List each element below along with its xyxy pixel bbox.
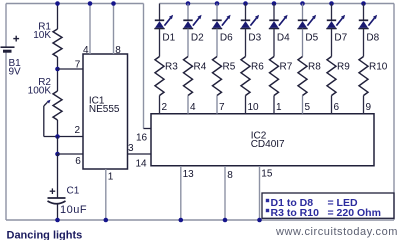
title Dancing lights	[7, 230, 83, 240]
pin number 13	[183, 169, 195, 180]
label R2	[38, 77, 51, 88]
node pin2 junction	[55, 134, 60, 139]
node pin8 ground junction	[223, 218, 228, 223]
pin number 4 (IC2 top)	[190, 102, 196, 113]
IC U2 CD4017 box	[151, 114, 374, 166]
label D3	[248, 33, 261, 44]
svg-text:8: 8	[115, 45, 121, 56]
svg-text:R7: R7	[280, 62, 293, 73]
pin number 6 (IC2 top)	[334, 102, 340, 113]
LED D4	[269, 15, 288, 29]
wire R4 to IC2 pin 4	[187, 96, 189, 114]
resistor R3	[155, 57, 164, 96]
capacitor C1	[48, 188, 66, 203]
node D3 rail junction	[243, 1, 248, 6]
legend text D1 to D8	[271, 197, 314, 209]
node C1 ground junction	[55, 218, 60, 223]
wire D6 to R5	[216, 29, 218, 57]
wire C1 top lead	[57, 154, 59, 198]
node pin1 ground junction	[104, 218, 109, 223]
node R1 rail junction	[55, 1, 60, 6]
svg-text:10K: 10K	[33, 30, 51, 41]
wire D3 to R6	[245, 29, 247, 57]
pin number 16	[136, 133, 148, 144]
wire R1 top lead	[57, 4, 59, 30]
wire top rail left segment (+9V)	[6, 3, 144, 5]
node D2 rail junction	[186, 1, 191, 6]
svg-text:R5: R5	[223, 62, 236, 73]
wire R5 to IC2 pin 7	[216, 96, 218, 114]
label B1	[9, 58, 22, 69]
svg-text:9V: 9V	[9, 67, 22, 78]
pin number 7 (IC2 top)	[219, 102, 225, 113]
label IC1	[89, 96, 105, 107]
svg-text:R10: R10	[369, 62, 388, 73]
svg-text:6: 6	[75, 156, 81, 167]
svg-text:NE555: NE555	[89, 104, 120, 115]
wire pin 6	[58, 153, 84, 155]
wire pin 16 from +9V rail	[144, 4, 152, 129]
LED D3	[240, 15, 259, 29]
svg-text:7: 7	[75, 60, 81, 71]
label R4	[194, 62, 207, 73]
resistor R10	[359, 57, 368, 96]
wire R2 bottom lead	[57, 120, 59, 137]
label CD4017	[251, 139, 285, 150]
svg-text:3: 3	[128, 143, 134, 154]
legend bullet 2	[266, 209, 269, 212]
legend box	[262, 193, 394, 218]
pin number 1	[108, 172, 114, 183]
wire R6 to IC2 pin 10	[245, 96, 247, 114]
wire pin 8	[113, 4, 115, 55]
wire D2 anode lead	[187, 4, 189, 21]
wire bottom rail (0V)	[6, 219, 394, 221]
svg-text:D5: D5	[305, 33, 318, 44]
svg-text:100K: 100K	[28, 86, 52, 97]
wire pin 8 ground	[224, 166, 226, 220]
svg-text:R3 to R10: R3 to R10	[271, 207, 320, 219]
label R5	[223, 62, 236, 73]
svg-text:D2: D2	[191, 33, 204, 44]
label R3	[165, 62, 178, 73]
label C1	[67, 186, 80, 197]
svg-text:1: 1	[108, 172, 114, 183]
wire D1 anode lead	[159, 4, 161, 21]
legend text R3 to R10	[271, 207, 320, 219]
label R10	[369, 62, 388, 73]
svg-text:CD40I7: CD40I7	[251, 139, 285, 150]
wire R7 to IC2 pin 1	[273, 96, 275, 114]
label D5	[305, 33, 318, 44]
op-amp IC1 NE555 box	[83, 54, 128, 169]
LED D2	[183, 15, 202, 29]
wire D1 to R3	[159, 29, 161, 57]
LED D5	[297, 15, 316, 29]
svg-text:R9: R9	[337, 62, 350, 73]
pin number 8	[115, 45, 121, 56]
svg-text:7: 7	[219, 102, 225, 113]
wire D6 anode lead	[216, 4, 218, 21]
legend text = 220 Ohm	[328, 207, 381, 219]
node D6 rail junction	[215, 1, 220, 6]
LED D8	[358, 15, 377, 29]
wire pin 3 to pin 14	[128, 153, 152, 155]
node R1/R2 junction	[55, 67, 60, 72]
svg-text:C1: C1	[67, 186, 80, 197]
legend text = LED	[328, 197, 358, 209]
wire R3 to IC2 pin 2	[159, 96, 161, 114]
pin number 2 (IC2 top)	[162, 102, 168, 113]
svg-text:9: 9	[366, 102, 372, 113]
legend bullet 1	[266, 199, 269, 202]
svg-text:10uF: 10uF	[60, 204, 87, 216]
wire pin 7	[58, 68, 84, 70]
pin number 3	[128, 143, 134, 154]
wire R8 to IC2 pin 5	[302, 96, 304, 114]
wire D8 to R10	[363, 29, 365, 57]
pin number 2	[75, 125, 81, 136]
R2 wiper arrow	[44, 100, 51, 137]
label R9	[337, 62, 350, 73]
wire R9 to IC2 pin 6	[331, 96, 333, 114]
pin number 5 (IC2 top)	[305, 102, 311, 113]
svg-text:15: 15	[261, 169, 273, 180]
pin number 6	[75, 156, 81, 167]
label D1	[162, 33, 175, 44]
wire D2 to R4	[187, 29, 189, 57]
pin number 8 (IC2)	[227, 170, 233, 181]
pin number 7	[75, 60, 81, 71]
label D6	[220, 33, 233, 44]
svg-text:D8: D8	[366, 33, 379, 44]
resistor R5	[213, 57, 222, 96]
svg-text:= 220 Ohm: = 220 Ohm	[328, 207, 381, 219]
svg-text:D7: D7	[334, 33, 347, 44]
value 10uF	[60, 204, 87, 216]
wire top rail right segment	[160, 3, 395, 5]
label IC2	[251, 131, 267, 142]
svg-text:R4: R4	[194, 62, 207, 73]
svg-text:R6: R6	[251, 62, 264, 73]
node D5 rail junction	[300, 1, 305, 6]
wire right rail	[393, 4, 395, 221]
LED D6	[212, 15, 231, 29]
resistor R4	[184, 57, 193, 96]
svg-text:www.circuitstoday.com: www.circuitstoday.com	[275, 226, 398, 238]
value 10K	[33, 30, 51, 41]
wire D7 to R9	[331, 29, 333, 57]
value 9V	[9, 67, 22, 78]
svg-text:8: 8	[227, 170, 233, 181]
svg-text:4: 4	[190, 102, 196, 113]
value 100K	[28, 86, 52, 97]
pin number 15	[261, 169, 273, 180]
wire D3 anode lead	[245, 4, 247, 21]
svg-text:14: 14	[136, 159, 148, 170]
resistor R1	[53, 29, 62, 57]
svg-text:2: 2	[75, 125, 81, 136]
LED D7	[326, 15, 345, 29]
wire R1 bottom to R2	[57, 57, 59, 91]
wire left rail upper	[5, 4, 7, 47]
label R7	[280, 62, 293, 73]
label R1	[38, 21, 51, 32]
label NE555	[89, 104, 120, 115]
wire pin 2	[44, 136, 83, 138]
wire C1 bottom lead	[57, 204, 59, 220]
node pin8 rail junction	[111, 1, 116, 6]
wire pin 15 to ground	[259, 166, 261, 220]
wire pin 1 to ground	[105, 169, 107, 220]
resistor R9	[327, 57, 336, 96]
wire to pin 6	[57, 137, 59, 155]
wire D7 anode lead	[331, 4, 333, 21]
wire pin 13 to ground	[180, 166, 182, 220]
resistor R7	[270, 57, 279, 96]
node D7 rail junction	[329, 1, 334, 6]
pin number 4	[83, 45, 89, 56]
wire pin 4	[89, 4, 91, 55]
node pin13 ground junction	[179, 218, 184, 223]
resistor R6	[241, 57, 250, 96]
wire D5 anode lead	[302, 4, 304, 21]
svg-text:D1: D1	[162, 33, 175, 44]
LED D1	[154, 15, 173, 29]
node D8 rail junction	[361, 1, 366, 6]
wire D4 anode lead	[273, 4, 275, 21]
wire D5 to R8	[302, 29, 304, 57]
node pin15 ground junction	[257, 218, 262, 223]
svg-text:13: 13	[183, 169, 195, 180]
node pin4 rail junction	[88, 1, 93, 6]
node pin6 junction	[55, 152, 60, 157]
battery B1 9V	[1, 36, 20, 52]
label D2	[191, 33, 204, 44]
pin number 14	[136, 159, 148, 170]
svg-text:16: 16	[136, 133, 148, 144]
pin number 1 (IC2 top)	[276, 102, 282, 113]
pin number 9 (IC2 top)	[366, 102, 372, 113]
pin number 10 (IC2 top)	[248, 102, 260, 113]
label R8	[308, 62, 321, 73]
svg-text:R3: R3	[165, 62, 178, 73]
svg-text:10: 10	[248, 102, 260, 113]
resistor R2 (pot)	[53, 91, 62, 120]
svg-text:D6: D6	[220, 33, 233, 44]
label R6	[251, 62, 264, 73]
label D8	[366, 33, 379, 44]
wire R10 to IC2 pin 9	[363, 96, 365, 114]
watermark www.circuitstoday.com	[275, 226, 398, 238]
svg-text:Dancing lights: Dancing lights	[7, 230, 83, 240]
wire left rail lower	[5, 53, 7, 221]
wire D8 anode lead	[363, 4, 365, 21]
node D4 rail junction	[272, 1, 277, 6]
wire D4 to R7	[273, 29, 275, 57]
svg-text:D3: D3	[248, 33, 261, 44]
svg-text:D4: D4	[277, 33, 290, 44]
label D7	[334, 33, 347, 44]
svg-text:2: 2	[162, 102, 168, 113]
label D4	[277, 33, 290, 44]
svg-text:R8: R8	[308, 62, 321, 73]
svg-text:6: 6	[334, 102, 340, 113]
resistor R8	[298, 57, 307, 96]
svg-text:1: 1	[276, 102, 282, 113]
svg-text:4: 4	[83, 45, 89, 56]
svg-text:5: 5	[305, 102, 311, 113]
